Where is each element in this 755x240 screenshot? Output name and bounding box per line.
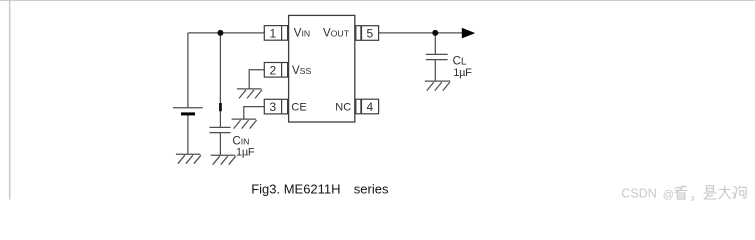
wire CL to ground	[434, 60, 436, 82]
svg-text:3: 3	[270, 100, 277, 114]
watermark glyph kan	[675, 186, 687, 200]
wire VSS pin2	[249, 70, 264, 89]
battery BT1	[173, 108, 203, 116]
wire battery top	[187, 33, 189, 108]
pin 2 box	[264, 63, 287, 78]
page left border	[9, 0, 11, 200]
svg-text:VSS: VSS	[292, 65, 311, 77]
wire CIN to ground	[219, 133, 221, 156]
wire VOUT rail	[379, 32, 463, 34]
ground (VSS pin2)	[237, 89, 262, 99]
wire CE pin3	[244, 107, 264, 120]
pin 4 box	[356, 99, 379, 114]
watermark comma	[691, 196, 693, 200]
watermark glyph gou	[733, 186, 747, 199]
svg-text:Fig3. ME6211H: Fig3. ME6211H	[251, 182, 340, 197]
op-amp U1 ME6211H body	[289, 15, 355, 122]
wire battery to ground	[187, 115, 189, 155]
node A input junction	[217, 30, 223, 36]
svg-text:VIN: VIN	[294, 28, 310, 40]
pin 3 box	[264, 99, 287, 114]
svg-text:VOUT: VOUT	[323, 28, 350, 40]
ground (CL)	[425, 81, 451, 91]
svg-text:1µF: 1µF	[236, 146, 255, 158]
wire CIN vertical	[219, 33, 221, 128]
ground (battery)	[176, 154, 201, 164]
wire CL vertical	[434, 33, 436, 55]
svg-text:5: 5	[367, 27, 374, 41]
watermark glyph da	[719, 185, 731, 199]
capacitor CL	[426, 54, 448, 59]
node B output junction	[432, 30, 438, 36]
svg-text:4: 4	[367, 100, 374, 114]
page top border	[0, 0, 755, 2]
wire VIN top rail	[188, 32, 264, 34]
ground (CE pin3)	[232, 119, 257, 129]
svg-text:1µF: 1µF	[453, 67, 472, 79]
watermark glyph shi	[704, 186, 717, 199]
svg-text:CSDN: CSDN	[621, 187, 656, 201]
svg-text:NC: NC	[335, 101, 351, 113]
pin 1 box	[264, 26, 287, 41]
svg-text:series: series	[354, 182, 389, 197]
svg-text:CL: CL	[453, 56, 467, 68]
svg-text:2: 2	[270, 63, 277, 77]
svg-text:@: @	[663, 189, 674, 201]
polarity mark on CIN wire	[219, 103, 222, 111]
capacitor CIN	[210, 127, 231, 132]
ground (CIN)	[211, 155, 236, 165]
svg-text:1: 1	[270, 26, 277, 40]
svg-text:CE: CE	[291, 101, 306, 113]
output arrow	[462, 28, 475, 39]
pin 5 box	[356, 26, 379, 41]
